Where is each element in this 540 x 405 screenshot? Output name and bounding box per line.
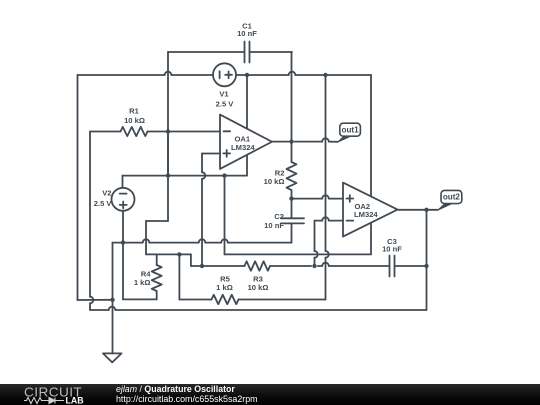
wire OA2 output	[398, 209, 439, 211]
junction OA2 output with bottom rail branch	[424, 208, 428, 212]
wire vertical x=168 between rails	[167, 132, 169, 176]
resistor R3	[245, 261, 270, 270]
wire out2 vertical	[426, 210, 428, 266]
wire R1 left lead	[90, 131, 121, 133]
wire R3 wire to C3	[329, 265, 390, 267]
svg-text:out1: out1	[342, 125, 360, 134]
svg-text:LM324: LM324	[231, 143, 255, 152]
hop of OA2 + wire over x=325.5	[322, 195, 329, 198]
wire bottom rail right vertical	[426, 266, 428, 310]
ground	[103, 353, 122, 362]
wire ground branch vertical to ground	[112, 300, 114, 354]
junction rail y=75 with x=325.5	[323, 73, 327, 77]
svg-text:1 kΩ: 1 kΩ	[134, 278, 151, 287]
wire OA2 VCC pin	[370, 75, 372, 196]
junction R1 with x=168 vertical	[166, 129, 170, 133]
junction bias rail with x=168	[166, 173, 170, 177]
wire R2 top lead	[291, 142, 293, 162]
svg-text:LM324: LM324	[354, 210, 378, 219]
svg-text:10 kΩ: 10 kΩ	[264, 177, 285, 186]
wire C1 top left segment	[168, 51, 245, 53]
junction ground branch with V1- rail	[110, 298, 114, 302]
hop of x=90 over y=300	[90, 297, 93, 304]
wire VEE branch x=224.5	[224, 176, 226, 255]
wire C3 to out2 vertical	[395, 265, 427, 267]
wire C2 return rail seg1	[228, 242, 292, 244]
logo resistor glyph	[24, 398, 44, 404]
wire OA1 + input vertical upper	[201, 154, 203, 173]
wire V1 rail to source	[171, 74, 213, 76]
wire C1 top right segment	[250, 51, 293, 53]
wire vertical x=168 from C1 to jog	[167, 52, 169, 221]
wire C2 bottom lead	[291, 223, 293, 242]
op-amp OA2	[343, 183, 398, 237]
wire OA1 output continues	[295, 141, 323, 143]
wire V2 top lead	[122, 176, 124, 188]
wire bottom rail left	[90, 309, 109, 311]
wire R3 left lead	[191, 265, 245, 267]
junction OA1 output with R2/C1 branch	[289, 139, 293, 143]
wire OA2 + input seg1	[292, 198, 323, 200]
wire V2 bottom lead down to R4 row	[122, 211, 124, 300]
wire C2 return rail seg2	[205, 242, 221, 244]
svg-text:V1: V1	[219, 90, 229, 99]
wire bias rail y=175.6	[123, 175, 248, 177]
CircuitLab logo	[24, 386, 94, 404]
hop of bottom rail over x=112.5	[109, 307, 116, 310]
footer bar	[0, 384, 540, 405]
resistor R4	[152, 265, 162, 291]
wire C1 right vertical	[291, 52, 293, 142]
hop of rail y=75 over x=168	[165, 72, 172, 75]
wire R4 top lead	[156, 254, 158, 265]
wire to out1 flag	[329, 141, 338, 143]
svg-text:10 kΩ: 10 kΩ	[124, 116, 145, 125]
junction R2/C2/OA2+	[289, 196, 293, 200]
svg-text:LAB: LAB	[65, 396, 83, 405]
wire R2 bottom lead	[291, 190, 293, 199]
capacitor C2	[281, 218, 304, 223]
wire R5 branch vertical x=179.4	[178, 254, 180, 299]
hop of out1 wire over x=325.5	[322, 138, 329, 141]
hop of rail y=75 over x=291.5	[289, 72, 296, 75]
wire R1 left vertical x=90	[89, 132, 91, 297]
wire VEE rail to OA2	[225, 253, 372, 255]
wire vertical x=146 down to R4 row	[145, 221, 147, 254]
capacitor C3	[390, 256, 395, 277]
svg-text:out2: out2	[443, 193, 461, 202]
footer credits	[116, 385, 258, 405]
svg-text:2.5 V: 2.5 V	[216, 100, 235, 109]
svg-text:10 kΩ: 10 kΩ	[248, 283, 269, 292]
svg-text:10 nF: 10 nF	[264, 221, 284, 230]
svg-text:R1: R1	[129, 107, 139, 116]
hop of x=325.5 over y=254.4	[326, 251, 329, 258]
svg-text:10 nF: 10 nF	[237, 29, 257, 38]
wire V1 rail left	[78, 74, 165, 76]
wire R3 wire between junction and hop	[318, 265, 322, 267]
hop of OA2 - wire over x=325.5	[322, 217, 329, 220]
wire R3 to OA2 - branch	[270, 265, 311, 267]
junction V2+ with C2 return rail	[121, 240, 125, 244]
junction R3 wire with OA2 - input	[312, 264, 316, 268]
resistor R5	[212, 295, 239, 304]
hop of x=202 over y=175.6	[202, 172, 205, 179]
wire C2 top lead	[291, 199, 293, 219]
wire bottom rail long	[115, 309, 426, 311]
capacitor C1	[245, 42, 250, 63]
wire R4 top rail	[146, 253, 191, 255]
svg-text:V2: V2	[102, 189, 111, 198]
resistor R1	[121, 127, 148, 136]
wire OA2 - input seg2	[315, 220, 323, 222]
wire OA1 + input horizontal	[202, 153, 220, 155]
wire R5 right lead	[239, 299, 326, 301]
hop of R3 wire over x=325.5	[322, 263, 329, 266]
wire OA2 VEE pin riser	[370, 223, 372, 255]
wire R5 feedback vertical x=325.5 lower	[325, 258, 327, 300]
wire ground branch vertical x=112.5 upper	[112, 243, 114, 300]
resistor R2	[287, 162, 297, 190]
logo diode glyph	[44, 398, 64, 404]
wire jog down to R3 row	[190, 254, 192, 266]
wire V1- rail corner to ground node	[78, 299, 113, 301]
wire R1 to OA1 inverting input	[148, 131, 221, 133]
wire OA2 + input seg2	[329, 198, 343, 200]
wire OA1 VEE pin	[246, 155, 248, 176]
wire OA1 VCC pin	[246, 75, 248, 129]
wire OA2 - input seg1	[329, 220, 343, 222]
flag out1	[338, 123, 361, 142]
junction C3 wire with out2 vertical	[424, 264, 428, 268]
wire R4 bottom horizontal	[123, 298, 157, 300]
voltage source V2	[112, 188, 135, 211]
svg-text:C2: C2	[274, 212, 284, 221]
wire C2 return rail seg3	[149, 242, 198, 244]
flag out2	[438, 190, 462, 210]
op-amp OA1	[220, 115, 272, 169]
wire V1 rail far right	[295, 74, 371, 76]
junction bias rail with x=224.5	[222, 173, 226, 177]
wire OA2 - vertical x=314.5 upper	[314, 221, 316, 252]
hop of return rail over x=224.5	[221, 239, 228, 242]
hop of return rail over x=202	[199, 239, 206, 242]
wire R4 bottom lead	[156, 291, 158, 299]
hop of return rail over x=146	[143, 239, 150, 242]
wire OA1 + input vertical lower	[201, 179, 203, 266]
wire R5 feedback vertical x=325.5 upper	[325, 75, 327, 251]
junction R4 rail with R5 branch	[177, 252, 181, 256]
junction R3 wire with OA1 + branch	[200, 264, 204, 268]
wire OA1 output	[272, 141, 289, 143]
svg-text:1 kΩ: 1 kΩ	[216, 283, 233, 292]
wire x=90 vertical below hop	[89, 303, 91, 310]
wire jog segment y=221	[146, 220, 168, 222]
wire far-left vertical x=77.5	[77, 75, 79, 300]
wire V1 rail right	[236, 74, 289, 76]
hop of x=314.5 over y=254.4	[315, 251, 318, 258]
junction V1+ to OA1 VCC	[245, 73, 249, 77]
svg-text:2.5 V: 2.5 V	[94, 199, 113, 208]
wire OA2 - vertical x=314.5 lower	[314, 258, 316, 266]
wire C2 return rail seg4	[113, 242, 143, 244]
svg-text:10 nF: 10 nF	[382, 244, 402, 253]
wire R5 left lead	[179, 299, 211, 301]
voltage source V1	[213, 63, 236, 86]
